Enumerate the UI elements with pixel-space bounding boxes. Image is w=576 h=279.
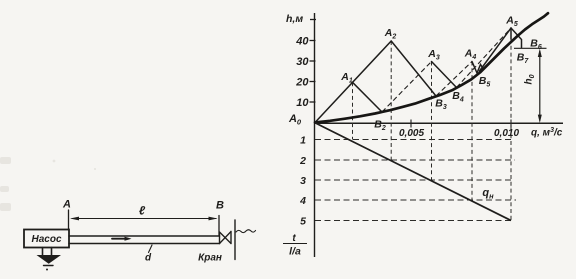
svg-text:l/a: l/a	[289, 246, 301, 258]
svg-text:Кран: Кран	[198, 253, 222, 264]
svg-text:4: 4	[299, 195, 306, 207]
svg-text:ℓ: ℓ	[139, 204, 146, 218]
svg-text:20: 20	[295, 77, 309, 89]
svg-text:10: 10	[296, 97, 309, 109]
svg-text:5: 5	[300, 215, 306, 227]
svg-text:d: d	[145, 253, 152, 264]
svg-text:h,м: h,м	[286, 13, 303, 25]
svg-text:0,010: 0,010	[494, 128, 519, 139]
svg-text:A: A	[62, 199, 71, 211]
svg-text:Насос: Насос	[31, 234, 61, 245]
svg-text:1: 1	[300, 134, 306, 146]
svg-text:2: 2	[299, 155, 306, 167]
svg-text:40: 40	[295, 36, 309, 48]
svg-text:B: B	[216, 200, 224, 212]
svg-text:3: 3	[300, 175, 306, 187]
svg-text:q, м3/с: q, м3/с	[531, 127, 563, 139]
svg-text:0,005: 0,005	[399, 128, 424, 139]
svg-text:30: 30	[296, 56, 309, 68]
